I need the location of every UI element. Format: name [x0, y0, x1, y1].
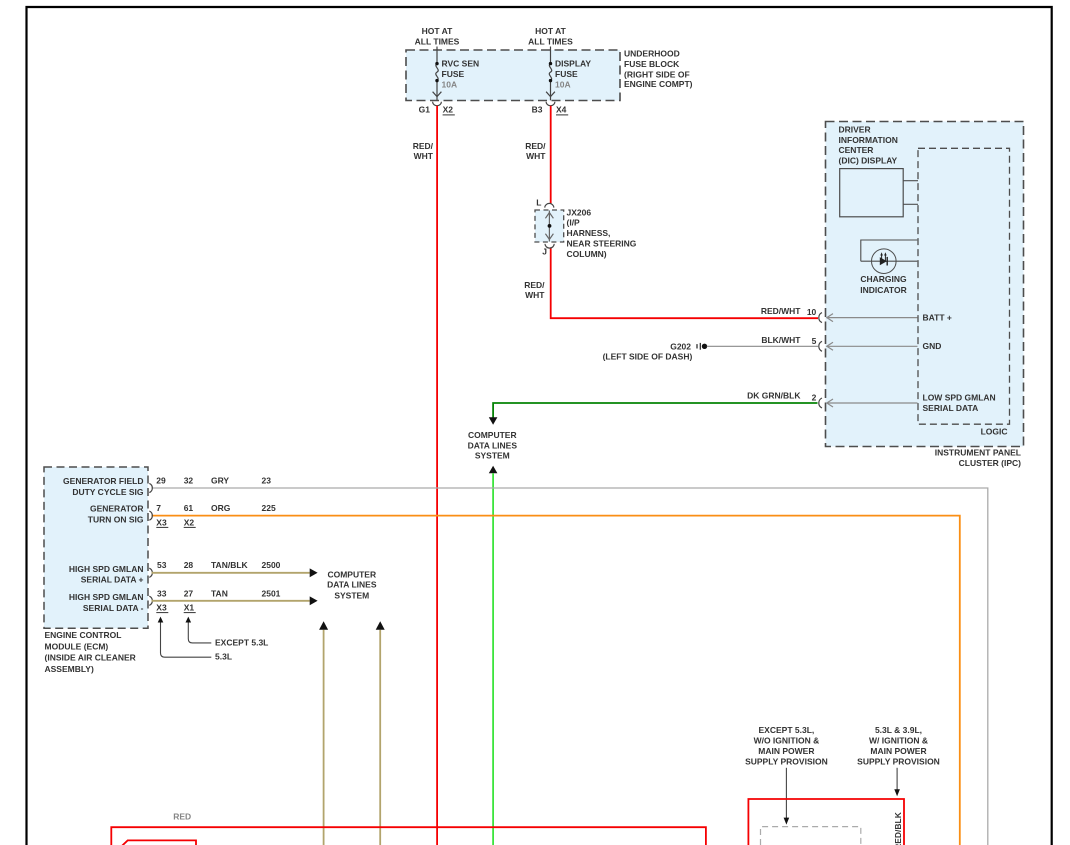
svg-text:EXCEPT 5.3L,: EXCEPT 5.3L,: [759, 725, 815, 735]
svg-text:INFORMATION: INFORMATION: [839, 135, 898, 145]
svg-text:2: 2: [812, 392, 817, 402]
svg-text:DATA LINES: DATA LINES: [327, 580, 377, 590]
svg-text:SUPPLY PROVISION: SUPPLY PROVISION: [857, 756, 940, 766]
svg-text:TAN/BLK: TAN/BLK: [211, 560, 249, 570]
svg-text:WHT: WHT: [414, 151, 434, 161]
svg-text:NEAR STEERING: NEAR STEERING: [567, 239, 637, 249]
svg-text:JX206: JX206: [567, 207, 592, 217]
svg-text:RED/: RED/: [413, 141, 434, 151]
svg-text:BLK/WHT: BLK/WHT: [761, 335, 801, 345]
svg-text:X4: X4: [556, 105, 567, 115]
svg-text:DISPLAY: DISPLAY: [555, 59, 591, 69]
svg-text:5.3L: 5.3L: [215, 652, 232, 662]
svg-text:G202: G202: [670, 342, 691, 352]
svg-text:X1: X1: [184, 603, 195, 613]
svg-text:X2: X2: [443, 105, 454, 115]
svg-text:29: 29: [156, 475, 166, 485]
svg-text:BATT +: BATT +: [923, 312, 952, 322]
svg-text:ALL TIMES: ALL TIMES: [528, 36, 573, 46]
svg-text:INDICATOR: INDICATOR: [860, 285, 906, 295]
svg-text:HOT AT: HOT AT: [422, 26, 453, 36]
svg-text:(INSIDE AIR CLEANER: (INSIDE AIR CLEANER: [45, 653, 136, 663]
svg-text:HIGH SPD GMLAN: HIGH SPD GMLAN: [69, 592, 144, 602]
svg-text:10: 10: [807, 307, 817, 317]
svg-text:COMPUTER: COMPUTER: [327, 570, 376, 580]
svg-text:INSTRUMENT PANEL: INSTRUMENT PANEL: [935, 447, 1021, 457]
svg-text:225: 225: [262, 503, 276, 513]
svg-text:28: 28: [184, 560, 194, 570]
svg-text:X3: X3: [156, 517, 167, 527]
svg-text:27: 27: [184, 588, 194, 598]
svg-text:MAIN POWER: MAIN POWER: [758, 746, 814, 756]
svg-text:LOW SPD GMLAN: LOW SPD GMLAN: [923, 393, 996, 403]
svg-text:ENGINE COMPT): ENGINE COMPT): [624, 79, 693, 89]
svg-text:ASSEMBLY): ASSEMBLY): [45, 664, 94, 674]
svg-text:FUSE: FUSE: [442, 69, 465, 79]
svg-text:ORG: ORG: [211, 503, 231, 513]
svg-text:23: 23: [262, 475, 272, 485]
svg-text:CLUSTER (IPC): CLUSTER (IPC): [959, 458, 1022, 468]
svg-text:5: 5: [812, 336, 817, 346]
svg-text:LOGIC: LOGIC: [981, 427, 1008, 437]
svg-text:2500: 2500: [262, 560, 281, 570]
svg-text:SYSTEM: SYSTEM: [475, 450, 510, 460]
svg-text:X2: X2: [184, 517, 195, 527]
svg-text:J: J: [542, 247, 547, 257]
svg-text:UNDERHOOD: UNDERHOOD: [624, 49, 680, 59]
svg-text:2501: 2501: [262, 588, 281, 598]
svg-text:MAIN POWER: MAIN POWER: [870, 746, 926, 756]
svg-text:(LEFT SIDE OF DASH): (LEFT SIDE OF DASH): [603, 352, 693, 362]
svg-text:DUTY CYCLE SIG: DUTY CYCLE SIG: [72, 487, 144, 497]
svg-text:GENERATOR FIELD: GENERATOR FIELD: [63, 476, 143, 486]
svg-text:RVC SEN: RVC SEN: [442, 59, 480, 69]
svg-text:(DIC) DISPLAY: (DIC) DISPLAY: [839, 155, 898, 165]
svg-text:DK GRN/BLK: DK GRN/BLK: [747, 391, 801, 401]
svg-text:10A: 10A: [555, 80, 571, 90]
svg-text:WHT: WHT: [525, 290, 545, 300]
svg-text:COMPUTER: COMPUTER: [468, 430, 517, 440]
svg-text:RED/: RED/: [525, 141, 546, 151]
svg-text:G1: G1: [419, 105, 431, 115]
svg-text:SERIAL DATA: SERIAL DATA: [923, 403, 979, 413]
svg-text:HIGH SPD GMLAN: HIGH SPD GMLAN: [69, 564, 144, 574]
svg-text:DRIVER: DRIVER: [839, 125, 871, 135]
svg-text:RED/BLK: RED/BLK: [893, 811, 903, 845]
svg-text:ENGINE CONTROL: ENGINE CONTROL: [45, 630, 122, 640]
svg-text:CHARGING: CHARGING: [860, 274, 907, 284]
svg-text:GND: GND: [923, 341, 942, 351]
svg-text:DATA LINES: DATA LINES: [468, 440, 518, 450]
svg-text:B3: B3: [532, 105, 543, 115]
svg-text:W/ IGNITION &: W/ IGNITION &: [869, 736, 928, 746]
svg-text:HARNESS,: HARNESS,: [567, 228, 611, 238]
svg-text:EXCEPT 5.3L: EXCEPT 5.3L: [215, 637, 268, 647]
svg-text:WHT: WHT: [526, 151, 546, 161]
svg-text:SYSTEM: SYSTEM: [334, 590, 369, 600]
svg-text:7: 7: [156, 503, 161, 513]
svg-text:32: 32: [184, 475, 194, 485]
svg-text:(I/P: (I/P: [567, 218, 581, 228]
svg-text:SUPPLY PROVISION: SUPPLY PROVISION: [745, 756, 828, 766]
svg-text:61: 61: [184, 503, 194, 513]
svg-text:GENERATOR: GENERATOR: [90, 504, 144, 514]
svg-text:RED/: RED/: [524, 280, 545, 290]
svg-text:5.3L & 3.9L,: 5.3L & 3.9L,: [875, 725, 922, 735]
svg-text:TAN: TAN: [211, 588, 228, 598]
svg-text:TURN ON SIG: TURN ON SIG: [88, 514, 144, 524]
svg-text:CENTER: CENTER: [839, 145, 874, 155]
svg-text:SERIAL DATA +: SERIAL DATA +: [81, 575, 144, 585]
svg-text:53: 53: [157, 560, 167, 570]
svg-text:MODULE (ECM): MODULE (ECM): [45, 641, 109, 651]
svg-text:10A: 10A: [442, 80, 458, 90]
svg-text:FUSE: FUSE: [555, 69, 578, 79]
svg-text:HOT AT: HOT AT: [535, 26, 566, 36]
svg-text:L: L: [536, 197, 541, 207]
svg-text:FUSE BLOCK: FUSE BLOCK: [624, 59, 680, 69]
svg-text:RED: RED: [173, 812, 191, 822]
svg-text:SERIAL DATA -: SERIAL DATA -: [83, 603, 144, 613]
svg-text:X3: X3: [156, 603, 167, 613]
svg-text:RED/WHT: RED/WHT: [761, 306, 801, 316]
svg-text:33: 33: [157, 588, 167, 598]
svg-text:ALL TIMES: ALL TIMES: [415, 36, 460, 46]
svg-text:(RIGHT SIDE OF: (RIGHT SIDE OF: [624, 69, 690, 79]
svg-text:COLUMN): COLUMN): [567, 249, 607, 259]
svg-text:GRY: GRY: [211, 475, 229, 485]
svg-text:W/O IGNITION &: W/O IGNITION &: [754, 736, 820, 746]
